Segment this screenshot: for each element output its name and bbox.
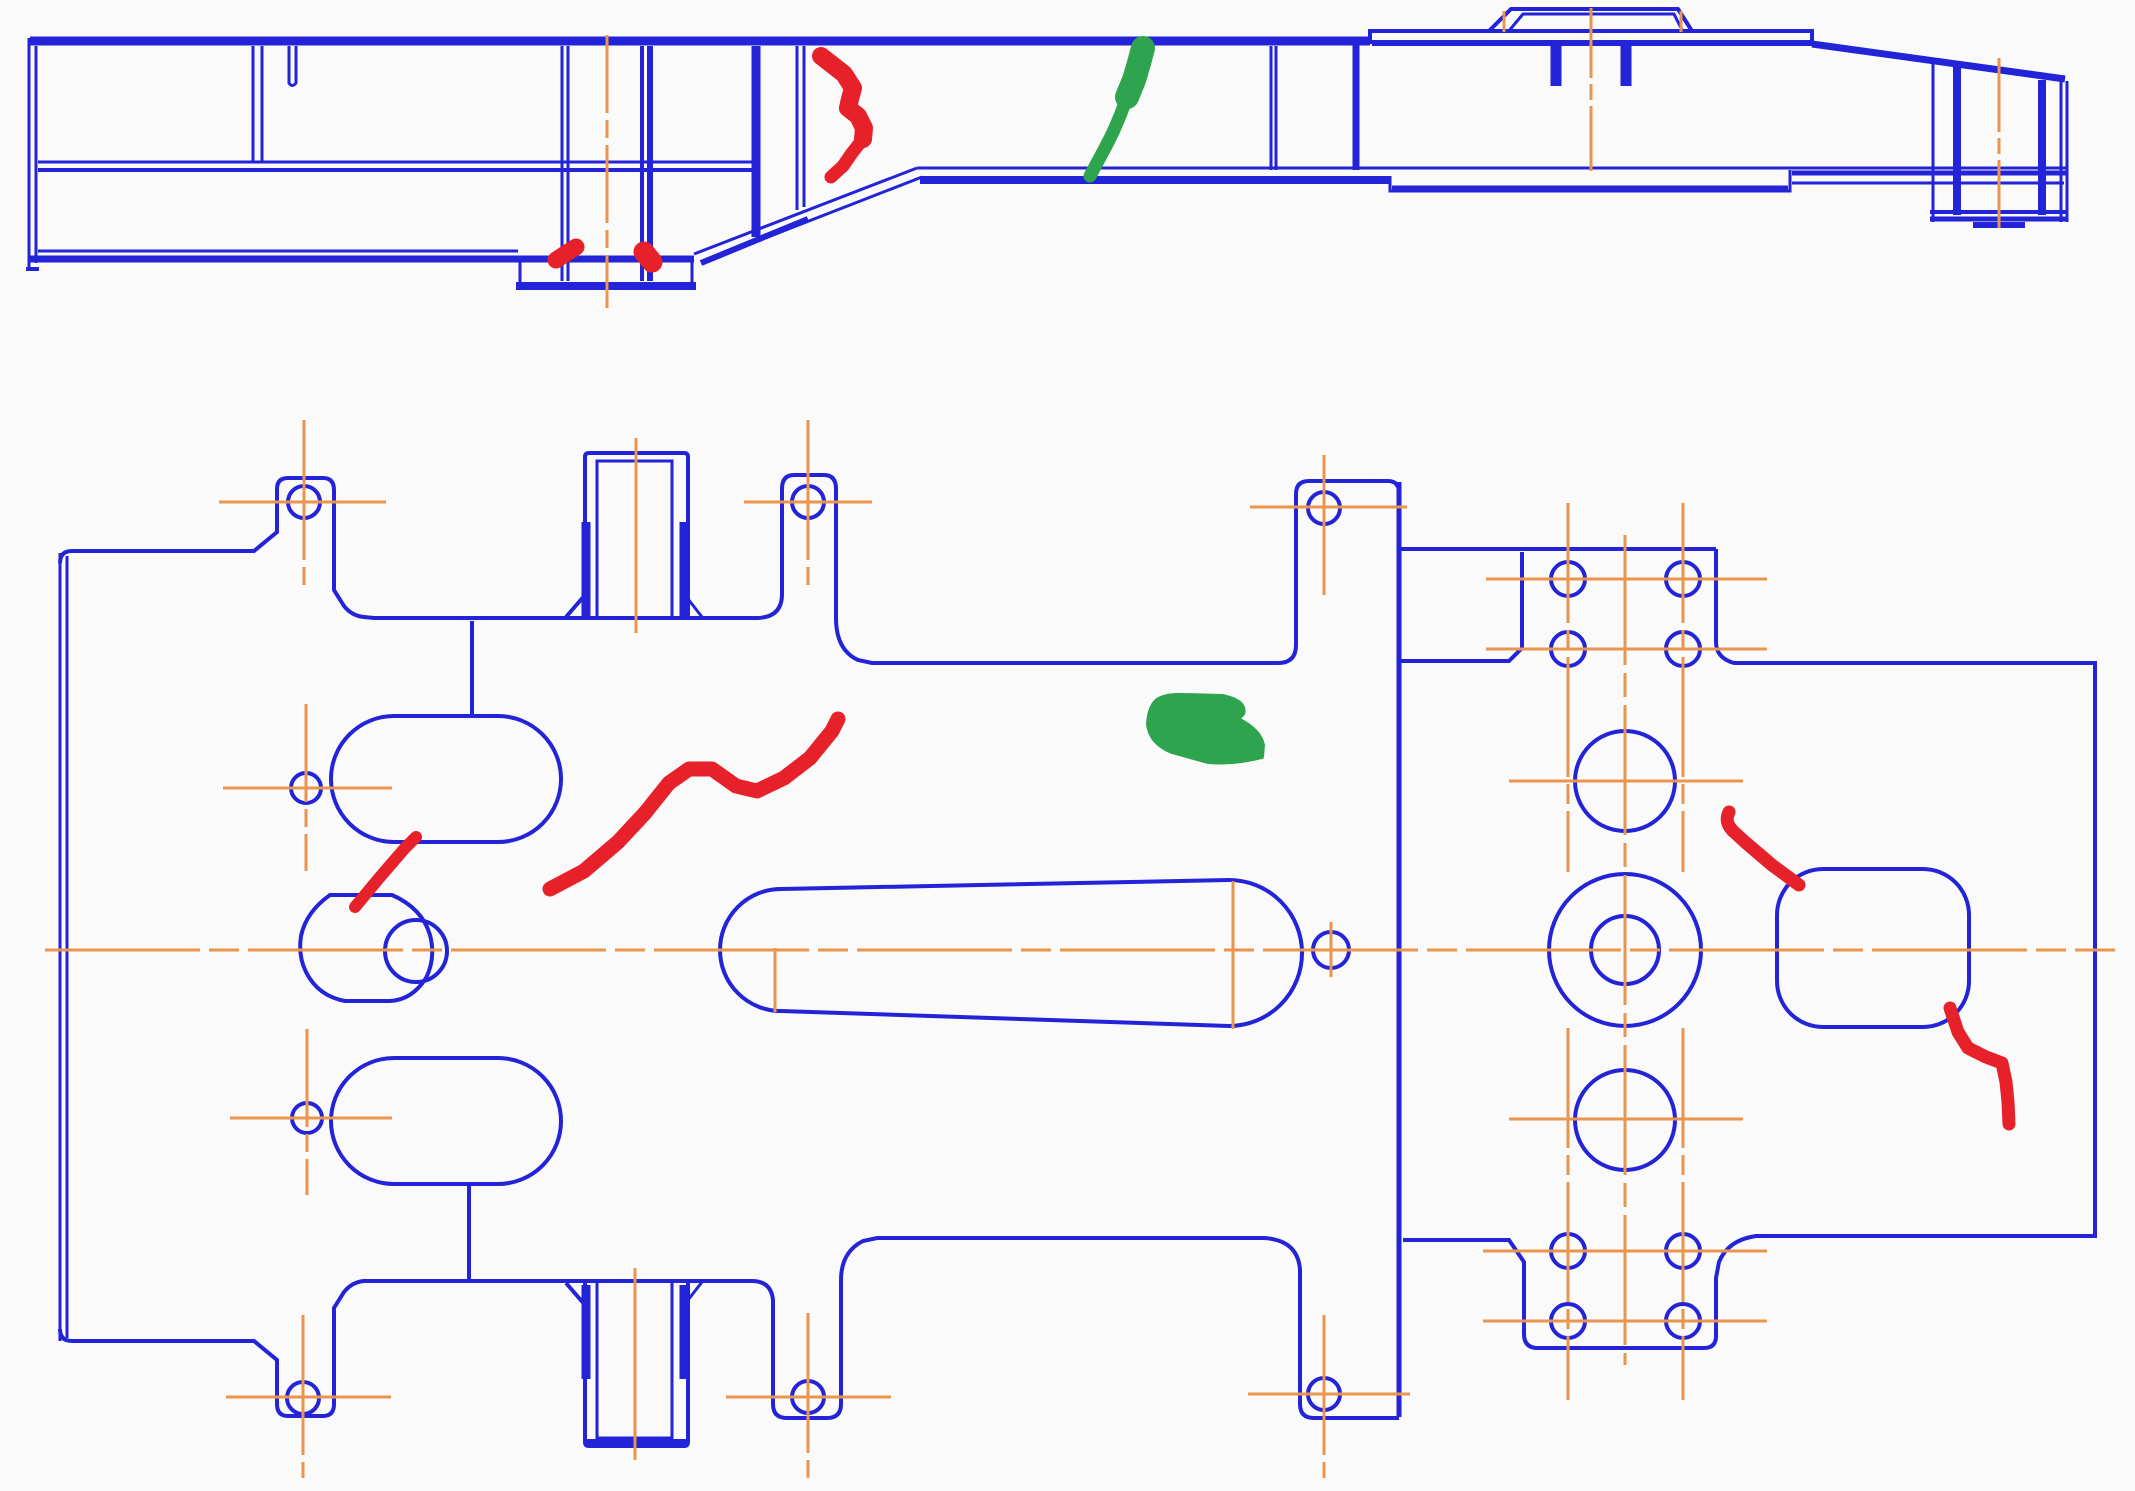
plan view: obround connector bottom [467,1186,471,1279]
plan view: right section small holes top [1551,562,1585,596]
plan view: upper-left obround cutout [331,716,561,842]
plan view: top outline from left corner through tabs to tab2 [60,475,1399,663]
plan view: bottom boss inner lines [597,1281,672,1438]
plan view: left edge inner line [66,556,69,1338]
markup: big red S on plan [550,719,838,889]
centerline: plan main horizontal axis [45,949,2115,952]
plan view: rounded square pocket [1777,869,1969,1027]
centerline: left lower small circle vertical [306,1029,309,1195]
centerline: side view right block axis [1998,58,2001,228]
markup: green squiggle on side view [1127,48,1143,97]
centerline: dome left edge mark [1503,11,1506,32]
side view: right bottom thin rail line [917,167,2066,170]
plan view: top boss weld diagonal [566,595,585,617]
centerline: right holes col2 top vertical [1682,503,1685,872]
side view: right bottom thick bar [920,176,1390,184]
plan view: bottom mini tab hole [792,1381,824,1413]
plan view: right section small holes bottom [1551,1234,1585,1268]
markup: red stroke into left counterbore [355,837,416,907]
plan view: top boss inner lines [597,461,672,618]
plan view: top mini tab hole [792,486,824,518]
plan view: big circle upper [1575,731,1675,831]
side view: right block bottom tab [1973,222,2025,228]
centerline: right holes row3 horizontal [1483,1250,1767,1253]
plan view: top boss right weld diagonal [688,599,702,617]
side view: hanging tab bars [1551,45,1562,86]
centerline: bottom mini tab hole vertical [807,1313,810,1480]
plan view: left counterbore shape [300,895,432,1001]
markup: red stroke at squircle bottom right [1950,1008,2009,1124]
plan view: bottom boss weld diagonal [566,1283,585,1305]
centerline: right holes col2 bottom vertical [1682,1028,1685,1400]
plan view: central long obround [720,880,1302,1026]
plan view: big circle lower [1575,1070,1675,1170]
centerline: right holes col1 top vertical [1567,503,1570,872]
plan view: bottom boss bottom bar [585,1439,688,1447]
side view: right block bottom bar [1930,210,2067,214]
plan view: bottom tab1 hole [287,1382,319,1414]
plan view: bottom boss thick side bars [582,1285,591,1379]
side view: left end plate [28,38,31,269]
side view: thick post [752,46,761,237]
centerline: mini tab hole horizontal [744,501,872,504]
centerline: tab2 hole vertical [1323,455,1326,597]
plan view: right section top line [1401,547,1716,551]
centerline: top boss axis [635,438,638,633]
centerline: central obround right mark [1232,881,1235,1029]
centerline: dome right edge mark [1680,11,1683,32]
centerline: right holes row1 horizontal [1486,578,1767,581]
side view: web vertical pair C [640,46,644,281]
side view: web vertical pair D [796,46,799,210]
centerline: bottom mini tab hole horizontal [726,1396,891,1399]
markup: red squiggle on side view [821,56,864,139]
plan view: right section notch [1401,552,1522,661]
markup: red dot on foot right [644,252,652,262]
plan view: left through hole circle [385,920,447,982]
centerline: left small circle horizontal [223,787,392,790]
side view: thick web vertical F [1353,45,1360,170]
centerline: tab2 hole horizontal [1250,506,1407,509]
centerline: small circle right mark [1330,922,1333,977]
plan view: bottom boss right weld diagonal [688,1282,702,1300]
side view: bottom flange thick line [30,256,694,263]
centerline: left small circle vertical [305,704,308,871]
centerline: side view dome axis [1590,8,1593,171]
plan view: concentric circles center [1549,874,1701,1026]
centerline: bottom tab1 hole horizontal [226,1396,391,1399]
markup: green blob on plan [1148,695,1263,763]
plan view: obround connector top [470,621,474,714]
centerline: central obround left mark [774,948,777,1012]
side view: top flange bar [30,37,1370,46]
centerline: right holes row2 horizontal [1486,648,1767,651]
plan view: small circle right of obround [1313,932,1349,968]
centerline: tab1 hole vertical [303,420,306,590]
centerline: right holes col1 bottom vertical [1567,1028,1570,1400]
centerline: side view foot axis [606,35,609,308]
side view: web vertical pair A [252,46,255,161]
centerline: tab1 hole horizontal [219,501,386,504]
plan view: left edge outer line [59,553,62,1341]
centerline: left lower small circle horizontal [230,1117,392,1120]
centerline: bottom boss axis [634,1268,637,1460]
plan view: top tab2 hole [1308,492,1340,524]
centerline: mini tab hole vertical [807,420,810,590]
plan view: lower-left obround cutout [331,1058,561,1184]
markup: red stroke at squircle top left [1727,812,1799,885]
side view: right lower lines [1792,171,2066,176]
centerline: bottom tab3 hole vertical [1323,1315,1326,1478]
centerline: right holes row4 horizontal [1483,1320,1767,1323]
plan view: small circle left lower [292,1103,322,1133]
centerline: lower big circle horizontal [1509,1118,1743,1121]
side view: hanging slot [289,46,296,86]
plan view: bottom tab3 hole [1308,1378,1340,1410]
side view: tapered top edge [1812,44,2065,79]
centerline: bottom tab3 hole horizontal [1248,1393,1410,1396]
side view: taper diagonals [694,168,917,254]
centerline: bottom tab1 hole vertical [302,1315,305,1478]
side view: band under raised plate [1372,40,1812,46]
plan view: main thick vertical divider [1397,482,1402,1417]
markup: red dot on foot left [556,247,576,260]
side view: dome boss on top [1488,9,1692,32]
plan view: bottom outline mirror [60,1238,1399,1418]
plan view: small circle left [291,773,321,803]
side view: mid rail lines [38,161,752,164]
plan view: top tab1 hole [288,486,320,518]
plan view: top boss outer [585,453,688,618]
centerline: circle column vertical [1624,535,1627,1365]
plan view: bottom boss outer [585,1281,688,1446]
side view: bottom flange thin line [38,250,518,253]
centerline: upper big circle horizontal [1509,780,1743,783]
side view: right block verticals [1932,63,1935,222]
plan view: right section outline [1403,549,2095,1348]
side view: web vertical pair E [1270,46,1273,170]
side view: hanging bottom plate [1390,170,1790,191]
side view: raised top plate [1370,31,1812,46]
plan view: top boss thick side bars [582,522,591,616]
side view: foot bracket [519,261,522,282]
side view: web vertical pair B [561,46,564,281]
